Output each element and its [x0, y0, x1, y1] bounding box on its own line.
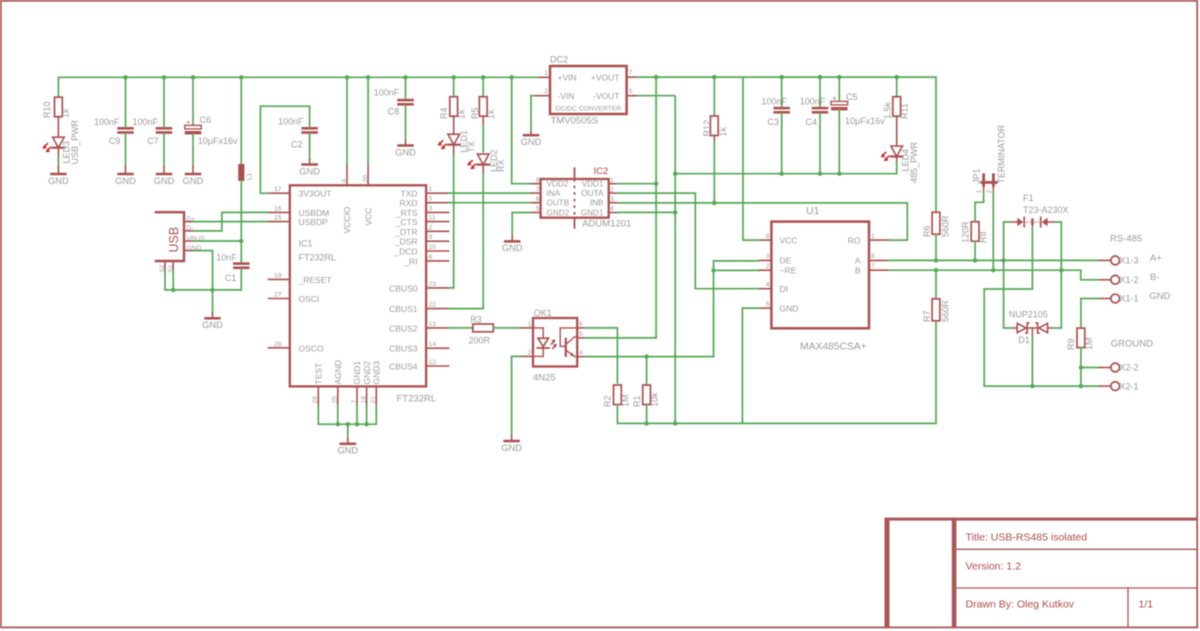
label T23-A230X [1023, 205, 1069, 215]
svg-text:485_PWR: 485_PWR [909, 141, 919, 183]
svg-text:2: 2 [986, 189, 993, 193]
pin number 5 (DC2) [629, 88, 633, 95]
pin number 10 [429, 244, 437, 251]
pin number 15 [274, 215, 282, 222]
wire C2 bottom [309, 134, 311, 160]
label JP1 [971, 168, 981, 184]
pin 1 +VIN [539, 76, 550, 78]
svg-text:GND: GND [780, 303, 799, 313]
svg-text:100nF: 100nF [132, 117, 158, 127]
wire D- to USBDM [194, 212, 269, 231]
svg-text:R5: R5 [470, 107, 480, 119]
wire VCC to rail [367, 77, 369, 164]
wire F1 right leg [1056, 222, 1062, 328]
wire R8 bottom [974, 241, 976, 260]
pin 26 TEST [317, 386, 319, 405]
svg-text:4: 4 [766, 282, 770, 289]
wire C4 bottom [819, 114, 821, 174]
svg-text:JP1: JP1 [971, 168, 981, 184]
label S1 [168, 264, 175, 272]
wire R12 top [713, 77, 715, 116]
pin 2 OUTA (IC2) [609, 192, 618, 194]
svg-text:_CTS: _CTS [395, 217, 418, 227]
svg-text:+VIN: +VIN [558, 72, 577, 82]
svg-text:23: 23 [429, 281, 437, 288]
pin name OSCO [299, 343, 324, 353]
svg-text:_DCD: _DCD [393, 247, 417, 257]
wire C3 bottom [781, 114, 783, 174]
label R12 [702, 120, 712, 137]
pin name USBDM [299, 208, 330, 218]
svg-text:-VOUT: -VOUT [593, 91, 619, 101]
pin 23 CBUS0 [426, 287, 449, 289]
label R6 [922, 225, 932, 237]
wire R9 bottom [1079, 348, 1083, 389]
svg-text:7: 7 [351, 400, 358, 404]
svg-text:4: 4 [579, 350, 583, 357]
label B- [1150, 272, 1160, 283]
svg-text:560R: 560R [940, 300, 950, 322]
svg-text:5: 5 [536, 206, 540, 213]
resistor R11 [893, 97, 901, 146]
wire C4 top [819, 77, 821, 107]
pin number 20 [362, 175, 369, 183]
svg-text:TEST: TEST [314, 363, 324, 385]
svg-text:U1: U1 [806, 205, 820, 217]
LED LED2 [467, 154, 489, 173]
pin name CBUS1 [389, 304, 418, 314]
svg-text:_RESET: _RESET [298, 275, 332, 285]
pin number 19 [274, 272, 282, 279]
label L1 [247, 172, 254, 180]
pin 18 GND2 [366, 386, 368, 405]
wire U1 GND [742, 307, 759, 309]
label C3 [767, 117, 779, 127]
wire R2 bottom [616, 405, 618, 424]
wire R3 to OK1 [493, 327, 521, 329]
label 100nF (C7) [132, 117, 158, 127]
capacitor C5 [831, 96, 848, 111]
svg-text:R3: R3 [470, 315, 482, 325]
svg-text:AGND: AGND [333, 360, 343, 385]
pin number 2 (OK1) [528, 349, 532, 356]
label LED1 [459, 130, 469, 153]
svg-text:R2: R2 [603, 395, 613, 407]
version text [966, 561, 1022, 573]
label ADUM1201 [582, 219, 631, 230]
label 200R [469, 335, 491, 345]
label TERMINATOR [996, 124, 1006, 183]
svg-text:10: 10 [429, 244, 437, 251]
label VBUS [186, 235, 205, 242]
connector USB [155, 212, 184, 261]
pin name ~RE (U1) [780, 265, 797, 275]
pin 28 OSCO [269, 347, 290, 349]
pin 6 OUTB (IC2) [531, 202, 540, 204]
label C4 [805, 117, 817, 127]
capacitor C1 [233, 262, 250, 269]
svg-text:RS-485: RS-485 [1110, 234, 1142, 245]
wire VBUS [194, 240, 242, 242]
svg-text:3: 3 [429, 205, 433, 212]
svg-text:10nF: 10nF [216, 252, 237, 262]
pin name _DCD [393, 247, 417, 257]
svg-text:~RE: ~RE [780, 265, 797, 275]
label R5 [470, 107, 480, 119]
svg-text:C8: C8 [388, 107, 400, 117]
wire C5 top [838, 77, 840, 102]
wire 485 GND net [637, 96, 897, 426]
pin 11 _CTS [426, 221, 449, 223]
resistor R10 [55, 97, 63, 136]
pin 6 _RI [426, 260, 449, 262]
label R10 [42, 101, 52, 118]
wire GND1 branch [617, 211, 675, 213]
svg-text:VCCIO: VCCIO [342, 206, 352, 233]
svg-text:2: 2 [528, 349, 532, 356]
svg-text:VCC: VCC [780, 235, 798, 245]
pin name GND1 (IC2) [581, 209, 604, 218]
wire C5 bottom [838, 110, 840, 173]
wire JP1 pin2 to B [992, 191, 994, 270]
svg-text:13: 13 [429, 321, 437, 328]
svg-text:L1: L1 [247, 172, 254, 180]
pin 17 3V3OUT [269, 192, 290, 194]
label 100nF (C9) [94, 117, 120, 127]
svg-text:6: 6 [536, 196, 540, 203]
label D1 [1018, 335, 1030, 345]
wire X2-2 stub [1081, 367, 1100, 369]
svg-text:28: 28 [274, 341, 282, 348]
pin 5 GND (U1) [759, 307, 771, 309]
label 1M (R2) [620, 394, 630, 407]
svg-text:Version: 1.2: Version: 1.2 [966, 561, 1022, 573]
pin name VDD1 (IC2) [582, 180, 604, 189]
pin 4 DI (U1) [759, 288, 771, 290]
IC IC2 box [541, 179, 609, 218]
pin number 4 (U1) [766, 282, 770, 289]
wire OK1 pin2 to gnd [512, 356, 522, 435]
connector X1-1 [1100, 294, 1139, 304]
label 1.5k [883, 101, 893, 119]
label FT232RL (inside) [299, 252, 337, 262]
pin name OUTA (IC2) [581, 189, 604, 198]
wire DE RE chain [711, 261, 759, 357]
svg-text:17: 17 [274, 186, 282, 193]
label 10nF (C1) [216, 252, 237, 262]
pin number 28 [274, 341, 282, 348]
IC U1 box [771, 222, 869, 329]
svg-text:100nF: 100nF [800, 96, 826, 106]
label C5 [846, 92, 858, 102]
wire C1 bottom [240, 269, 242, 290]
wire CBUS2 to R3 [449, 327, 473, 329]
ground GND (C9) [115, 167, 136, 186]
IC DC2 box [550, 66, 627, 114]
resistor R2 [614, 385, 622, 405]
svg-text:OUTA: OUTA [581, 189, 604, 198]
svg-text:DC/DC CONVERTER: DC/DC CONVERTER [555, 106, 621, 113]
label C7 [147, 136, 159, 146]
pin number 8 (IC2-l) [536, 177, 540, 184]
wire R7 top [935, 270, 937, 299]
resistor R8 [971, 222, 979, 242]
svg-text:GND: GND [1149, 291, 1170, 302]
pin name _CTS [395, 217, 418, 227]
pin 7 GND1 [356, 386, 358, 405]
svg-text:C3: C3 [767, 117, 779, 127]
svg-text:DI: DI [780, 284, 789, 294]
resistor R12 [710, 116, 718, 141]
pin 7 B (U1) [869, 269, 889, 271]
svg-text:R10: R10 [42, 101, 52, 118]
svg-text:GND: GND [154, 176, 175, 186]
pin number 7 (IC2-l) [536, 186, 540, 193]
pin number 14 [429, 341, 437, 348]
svg-text:_DSR: _DSR [394, 237, 418, 247]
pin number 7 (U1r) [871, 263, 875, 270]
ground GND (USB) [202, 313, 223, 330]
pin number 2 (DC2) [544, 88, 548, 95]
pin 15 USBDP [269, 221, 290, 223]
pin number 12 [429, 359, 437, 366]
LED LED3 [42, 137, 64, 156]
svg-text:CBUS2: CBUS2 [389, 323, 418, 333]
wire isolated gnd rail [617, 308, 936, 425]
svg-text:R11: R11 [900, 103, 910, 119]
wire VDD2 branch [512, 77, 532, 183]
svg-text:GND: GND [299, 166, 320, 176]
wire IC1 ground rail [318, 405, 376, 438]
pin number 2 (JP1) [986, 189, 993, 193]
svg-text:100nF: 100nF [374, 87, 400, 97]
title block [885, 518, 1198, 628]
svg-text:OUTB: OUTB [547, 199, 570, 208]
wire LED4 bottom [896, 162, 898, 174]
label U1 [806, 205, 820, 217]
pin number 6 (U1r) [871, 253, 875, 260]
svg-text:F1: F1 [1023, 193, 1034, 203]
pin name GND3 [372, 361, 382, 385]
svg-text:9: 9 [429, 234, 433, 241]
svg-text:560R: 560R [940, 215, 950, 237]
svg-text:1.5k: 1.5k [883, 101, 893, 119]
label S2 [159, 264, 166, 272]
pin number 6 [429, 254, 433, 261]
connector X2-1 [1100, 381, 1139, 391]
pin 20 VCC [367, 164, 369, 185]
jumper JP1 [980, 173, 997, 191]
svg-text:1: 1 [610, 177, 614, 184]
capacitor C7 [156, 127, 173, 134]
capacitor C9 [117, 127, 134, 134]
svg-text:IC1: IC1 [299, 239, 313, 249]
svg-text:C5: C5 [846, 92, 858, 102]
svg-text:R12: R12 [702, 120, 712, 137]
wire R5 to LED2 [482, 126, 484, 152]
label R1 [632, 395, 642, 407]
svg-text:FT232RL: FT232RL [299, 252, 337, 262]
wire VDD1 branch [617, 182, 658, 186]
ground GND (LED3) [48, 167, 69, 186]
wire F1 left leg [1004, 222, 1010, 328]
wire F1 center leg [984, 226, 1032, 386]
svg-text:1: 1 [976, 189, 983, 193]
pin number 3 [429, 205, 433, 212]
pin name VCC (U1) [780, 235, 798, 245]
wire VDD1 vertical [655, 77, 657, 338]
wire R1 bottom [646, 405, 648, 424]
wire VBUS vertical [239, 181, 243, 263]
pin name +VOUT [591, 72, 620, 82]
pin name INA (IC2) [547, 189, 561, 198]
svg-text:GND2: GND2 [362, 361, 372, 385]
svg-text:GND: GND [202, 320, 223, 330]
svg-text:OSCI: OSCI [299, 294, 320, 304]
label 560R (R7) [940, 300, 950, 322]
svg-text:1: 1 [429, 186, 433, 193]
label 1M (R9) [1084, 337, 1094, 350]
label RS-485 [1110, 234, 1142, 245]
capacitor C4 [812, 107, 829, 114]
svg-text:6: 6 [871, 253, 875, 260]
pin 5 RXD [426, 202, 449, 204]
pin number 25 [332, 396, 339, 404]
pin name CBUS0 [389, 283, 418, 293]
capacitor C6 [185, 120, 202, 135]
wire R4 top [453, 77, 455, 97]
label 100nF (C3) [761, 96, 787, 106]
svg-text:_RI: _RI [403, 256, 417, 266]
svg-text:8: 8 [536, 177, 540, 184]
pin 19 _RESET [269, 278, 290, 280]
svg-text:RXD: RXD [400, 198, 418, 208]
pin number 1 (DC2) [544, 70, 548, 77]
ground GND (C6) [183, 167, 204, 186]
svg-text:R7: R7 [922, 310, 932, 322]
wire A net row [889, 258, 1100, 262]
pin number 23 [429, 281, 437, 288]
label DC/DC CONVERTER [555, 106, 621, 113]
svg-text:A+: A+ [1150, 253, 1162, 264]
svg-text:TMV0505S: TMV0505S [551, 116, 599, 127]
pin 1 VDD1 (IC2) [609, 183, 618, 185]
wire C6 top [192, 77, 194, 125]
svg-text:X2-1: X2-1 [1120, 381, 1139, 391]
label R3 [470, 315, 482, 325]
svg-text:5: 5 [579, 331, 583, 338]
pin name OUTB (IC2) [547, 199, 570, 208]
svg-text:7: 7 [536, 186, 540, 193]
label 10uFx16v (C5) [845, 116, 885, 126]
ground GND (C2) [299, 160, 320, 177]
label GND (X1-1) [1149, 291, 1170, 302]
pin 21 GND3 [375, 386, 377, 405]
label IC2 [594, 166, 609, 177]
label R8 [978, 231, 988, 243]
capacitor C3 [773, 107, 790, 114]
pin name TEST [314, 363, 324, 385]
svg-text:X2-2: X2-2 [1120, 363, 1139, 373]
optocoupler OK1 [533, 318, 577, 367]
wire TXD to INA [449, 192, 532, 194]
pin 8 VCC (U1) [759, 239, 771, 241]
svg-text:200R: 200R [469, 335, 491, 345]
svg-text:INB: INB [590, 199, 604, 208]
resistor R4 [450, 97, 458, 135]
svg-text:12: 12 [429, 359, 437, 366]
label 4N25 [533, 372, 556, 383]
wire C3 top [781, 77, 783, 107]
capacitor C8 [397, 99, 414, 106]
pin number 4 (IC2-r) [610, 206, 614, 213]
wire C6 bottom [192, 134, 194, 166]
pin name -VIN [558, 91, 575, 101]
svg-text:TXD: TXD [401, 189, 418, 199]
pin 12 CBUS4 [426, 365, 449, 367]
wire VCCIO to rail [346, 77, 348, 164]
svg-text:GND: GND [115, 176, 136, 186]
wire USB +5V rail [58, 75, 538, 97]
ground GND (C8) [395, 141, 416, 158]
pin number 3 (IC2-r) [610, 196, 614, 203]
svg-text:27: 27 [274, 292, 282, 299]
svg-text:D-: D- [186, 225, 193, 232]
svg-text:18: 18 [360, 396, 367, 404]
svg-text:1k: 1k [61, 108, 71, 118]
pin number 2 (U1) [766, 263, 770, 270]
pin 22 CBUS1 [426, 308, 449, 310]
isolation barrier [574, 168, 576, 228]
pin number 8 (U1) [766, 233, 770, 240]
svg-text:22: 22 [429, 302, 437, 309]
pin 5 GND2 (IC2) [531, 212, 540, 214]
svg-text:R4: R4 [439, 107, 449, 119]
label 10uFx16v (C6) [198, 136, 238, 146]
svg-text:1: 1 [871, 233, 875, 240]
pin 4 (OK1) [577, 356, 585, 358]
label GROUND [1111, 339, 1153, 350]
wire R5 top [482, 77, 484, 97]
label 1k [61, 108, 71, 118]
wire C8 top [405, 77, 407, 99]
svg-text:100nF: 100nF [761, 96, 787, 106]
label 120R [960, 221, 970, 243]
svg-text:6: 6 [579, 321, 583, 328]
svg-text:C4: C4 [805, 117, 817, 127]
svg-text:20: 20 [362, 175, 369, 183]
pin name _RESET [298, 275, 332, 285]
svg-text:NUP2105: NUP2105 [1009, 310, 1048, 320]
svg-text:4N25: 4N25 [533, 372, 556, 383]
ground GND (IC2) [502, 236, 523, 253]
svg-text:FT232RL: FT232RL [397, 394, 437, 405]
svg-text:GND: GND [183, 176, 204, 186]
svg-text:1/1: 1/1 [1139, 599, 1154, 611]
pin name _DTR [394, 227, 417, 237]
label D- [186, 225, 193, 232]
svg-text:16: 16 [274, 205, 282, 212]
svg-text:IC2: IC2 [594, 166, 609, 177]
wire R1 top [646, 357, 648, 386]
svg-text:11: 11 [429, 215, 436, 222]
label C9 [109, 136, 121, 146]
pin number 5 [429, 196, 433, 203]
svg-text:CBUS4: CBUS4 [389, 362, 418, 372]
svg-text:1: 1 [544, 70, 548, 77]
svg-text:GROUND: GROUND [1111, 339, 1153, 350]
pin number 26 [312, 396, 319, 404]
